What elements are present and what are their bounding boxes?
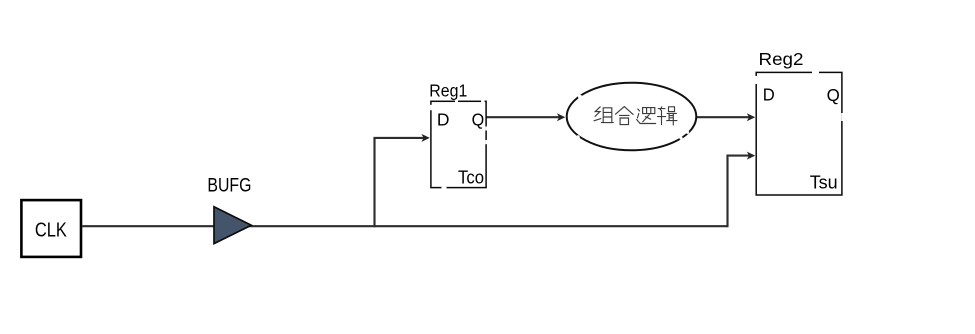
svg-text:BUFG: BUFG (207, 174, 251, 196)
svg-text:CLK: CLK (35, 219, 67, 242)
svg-text:D: D (763, 85, 775, 105)
svg-text:Tsu: Tsu (810, 173, 838, 193)
svg-text:Q: Q (472, 109, 485, 129)
svg-text:Q: Q (827, 85, 840, 105)
svg-text:Reg2: Reg2 (759, 49, 804, 69)
svg-text:Reg1: Reg1 (429, 80, 467, 100)
svg-text:D: D (437, 110, 450, 130)
svg-text:Tco: Tco (458, 168, 484, 188)
